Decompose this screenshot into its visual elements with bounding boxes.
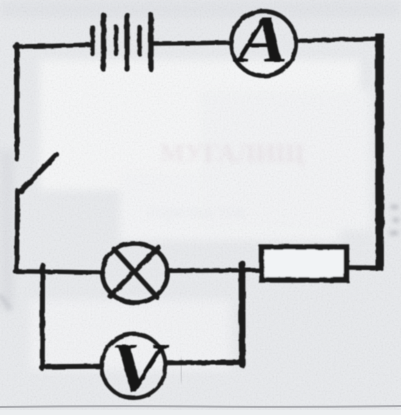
cell 1 long plate — [101, 15, 106, 69]
wire: battery to ammeter — [151, 40, 229, 45]
faint vertical mark near voltmeter right — [180, 358, 183, 382]
lamp cross stroke 1 — [114, 249, 158, 298]
wire: lamp to resistor (bottom main, right part) — [168, 268, 261, 273]
svg-text:V: V — [110, 330, 170, 407]
lamp L1 — [102, 243, 167, 302]
resistor R1 — [262, 247, 347, 280]
lamp cross stroke 2 — [110, 248, 159, 297]
junction: voltmeter left tap — [40, 266, 45, 274]
wire: top-left horizontal (corner to battery) — [15, 45, 90, 47]
bottom scan edge line — [0, 406, 401, 407]
wire: voltmeter branch right horizontal — [167, 360, 243, 365]
wire: voltmeter branch left horizontal — [41, 364, 100, 370]
ammeter circle — [231, 11, 296, 76]
pivot dot — [18, 188, 24, 194]
voltmeter V1 — [102, 334, 166, 398]
bottom-left gray streak — [0, 295, 10, 310]
wire: right vertical — [375, 34, 384, 272]
svg-text:A: A — [233, 2, 288, 77]
svg-text:МУГАЛИЩ: МУГАЛИЩ — [160, 139, 305, 168]
bleed-through specks right edge — [390, 205, 399, 235]
ammeter A1 — [231, 11, 296, 76]
cell 2 long plate — [124, 15, 129, 69]
ammeter label A — [233, 2, 288, 77]
cell 2 short plate — [114, 27, 118, 54]
cell 3 long plate — [148, 15, 153, 69]
wire: left vertical upper (to switch contact) — [14, 45, 19, 160]
battery B1 — [93, 15, 152, 69]
wire: left vertical lower (pivot to bottom corner) — [17, 191, 18, 271]
bleed-through text row 2 (faint) — [148, 201, 246, 223]
voltmeter label V — [110, 330, 170, 407]
cell 3 short plate — [137, 27, 141, 54]
wire: resistor right connector — [349, 265, 378, 270]
bleed-through text row 1 (faint) — [160, 139, 305, 168]
cell 1 short plate — [90, 27, 94, 54]
voltmeter circle — [102, 334, 166, 398]
wire: voltmeter branch right vertical — [239, 264, 246, 365]
junction: voltmeter right tap — [239, 264, 246, 272]
svg-text:горелка ток: горелка ток — [148, 201, 246, 223]
switch S1 (open blade) — [18, 155, 56, 195]
blade — [22, 155, 57, 191]
wire: ammeter to right corner — [298, 39, 381, 41]
wire: bottom-left corner to lamp — [15, 271, 103, 272]
wire: voltmeter branch left vertical — [40, 270, 45, 369]
lamp circle — [102, 243, 167, 302]
